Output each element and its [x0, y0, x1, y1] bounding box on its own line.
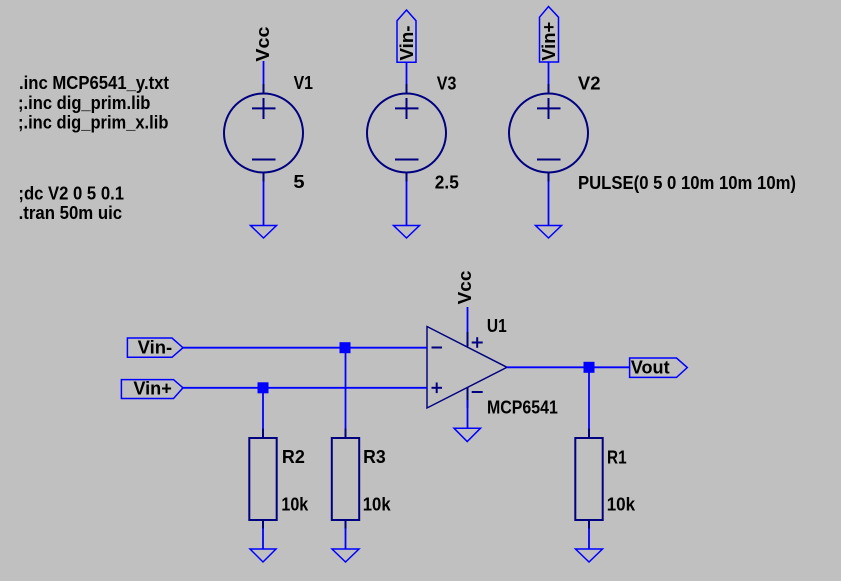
voltage source V3 — [367, 84, 446, 182]
svg-text:V3: V3 — [437, 73, 457, 93]
net flag Vin+ (input, left) — [121, 379, 183, 399]
svg-text:V1: V1 — [294, 73, 313, 93]
wire Vin+ to U1 non-inverting input — [183, 387, 427, 389]
svg-text:2.5: 2.5 — [435, 173, 459, 193]
svg-text:V2: V2 — [578, 74, 601, 94]
wire R1 to ground — [588, 528, 590, 549]
svg-text:;.inc dig_prim.lib: ;.inc dig_prim.lib — [18, 93, 150, 113]
svg-text:MCP6541: MCP6541 — [487, 397, 558, 417]
op-amp U1 — [427, 327, 507, 409]
ground (below V2) — [536, 226, 562, 239]
wire R2 to ground — [262, 528, 264, 549]
voltage source V2 — [509, 84, 588, 182]
svg-text:Vin+: Vin+ — [539, 22, 559, 61]
ground (below V3) — [394, 226, 420, 239]
resistor R1 — [575, 429, 602, 529]
svg-text:R2: R2 — [282, 447, 305, 467]
svg-text:Vin-: Vin- — [397, 25, 417, 60]
junction Vin-/R3 — [340, 342, 351, 353]
wire V1 bottom — [263, 181, 265, 226]
ground (below U1) — [454, 428, 481, 441]
wire junction to R2 — [262, 388, 264, 430]
wire V2 top — [548, 62, 550, 86]
net flag Vout (output) — [630, 357, 688, 377]
voltage source V1 — [224, 84, 303, 182]
svg-text:;.inc dig_prim_x.lib: ;.inc dig_prim_x.lib — [18, 113, 168, 133]
resistor R2 — [249, 429, 276, 529]
wire V3 top — [406, 62, 408, 86]
svg-text:10k: 10k — [281, 495, 309, 515]
junction output/R1 — [584, 362, 595, 373]
ground (below R1) — [576, 549, 603, 562]
net flag Vin- (above V3) — [397, 10, 417, 62]
resistor R3 — [332, 429, 359, 529]
svg-text:;dc V2 0 5 0.1: ;dc V2 0 5 0.1 — [18, 183, 124, 203]
wire V1 top — [263, 61, 265, 86]
wire Vin- to U1 inverting input — [183, 347, 427, 349]
wire R3 to ground — [345, 528, 347, 549]
ground (below V1) — [251, 226, 277, 239]
svg-text:U1: U1 — [487, 316, 507, 336]
junction Vin+/R2 — [258, 382, 269, 393]
svg-text:Vout: Vout — [631, 357, 670, 377]
wire V2 bottom — [548, 181, 550, 226]
wire junction to R3 — [345, 348, 347, 430]
wire U1 Vcc pin — [467, 307, 469, 335]
svg-text:Vin-: Vin- — [138, 338, 173, 358]
svg-text:Vcc: Vcc — [253, 27, 273, 62]
svg-text:PULSE(0 5 0 10m 10m 10m): PULSE(0 5 0 10m 10m 10m) — [578, 173, 796, 193]
wire V3 bottom — [406, 181, 408, 226]
wire U1 output — [507, 366, 630, 368]
net flag Vin+ (above V2) — [539, 7, 559, 63]
svg-text:R1: R1 — [607, 448, 627, 468]
svg-text:Vin+: Vin+ — [133, 379, 171, 399]
svg-text:Vcc: Vcc — [455, 271, 475, 305]
ground (below R2) — [250, 549, 276, 562]
net flag Vin- (input, left) — [127, 338, 183, 358]
wire U1 gnd pin — [467, 400, 469, 428]
svg-text:R3: R3 — [363, 447, 386, 467]
ground (below R3) — [332, 549, 359, 562]
svg-text:.tran 50m uic: .tran 50m uic — [19, 203, 123, 223]
svg-text:.inc MCP6541_y.txt: .inc MCP6541_y.txt — [19, 73, 169, 93]
wire junction to R1 — [588, 367, 590, 430]
svg-text:10k: 10k — [607, 495, 636, 515]
svg-text:10k: 10k — [363, 495, 392, 515]
svg-text:5: 5 — [293, 172, 304, 192]
